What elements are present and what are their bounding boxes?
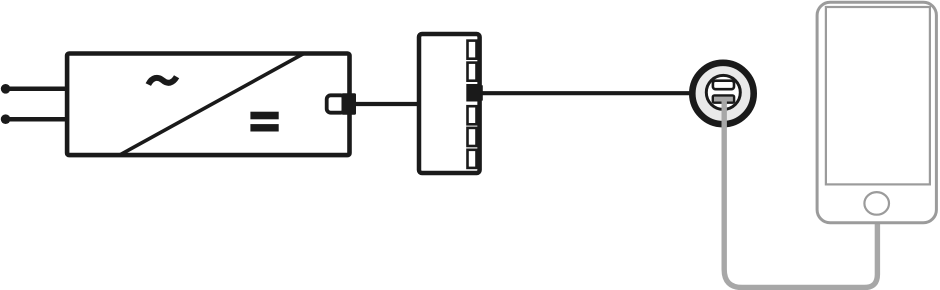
AC input terminal dot bottom [1,114,11,124]
adapter box U1 (AC/DC converter) [67,54,349,156]
phone home button [864,192,889,215]
DC output connector on adapter [327,95,345,112]
USB hub body [419,34,480,173]
adapter diagonal divider [120,54,304,155]
AC input terminal dot top [1,84,11,94]
hub port 6 [468,150,477,168]
charging cable [724,99,877,288]
hub port 5 [468,128,477,146]
phone body (redrawn over cable) [817,2,936,222]
hub port 1 [468,41,477,59]
wire hub to socket [482,91,692,95]
USB icon bottom bar [713,95,734,102]
AC input wire bottom [6,117,67,122]
socket inner circle [706,75,740,109]
AC tilde symbol [148,77,176,85]
USB plug inserted in hub port 3 [466,84,480,102]
DC equals symbol [250,112,278,120]
hub port 4 [468,106,477,124]
phone screen [826,7,930,184]
USB icon top bar [713,81,734,90]
hub port 2 [468,63,477,81]
AC input wire top [6,87,67,92]
socket outer ring [692,63,753,124]
wire adapter to hub [352,102,421,106]
